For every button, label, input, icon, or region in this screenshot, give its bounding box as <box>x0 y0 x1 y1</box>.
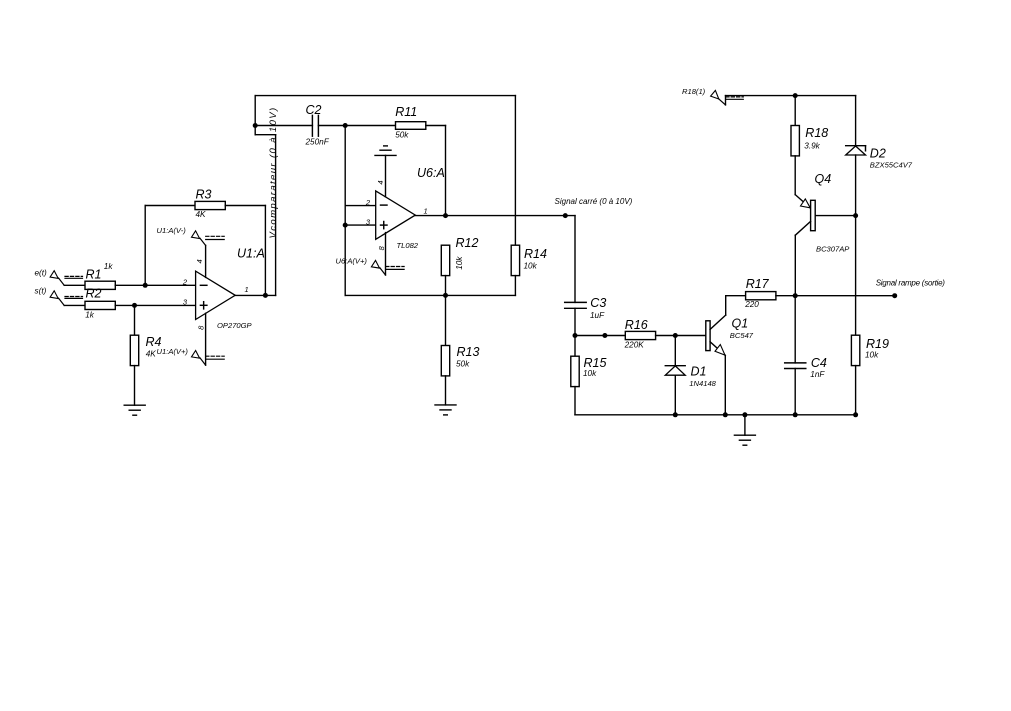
svg-text:220K: 220K <box>624 341 645 350</box>
svg-text:U1:A: U1:A <box>237 247 265 261</box>
svg-text:U6:A(V+): U6:A(V+) <box>336 256 368 265</box>
svg-text:10k: 10k <box>865 351 879 360</box>
svg-text:OP270GP: OP270GP <box>217 321 253 330</box>
svg-text:R3: R3 <box>196 187 212 201</box>
svg-text:10k: 10k <box>583 369 597 378</box>
svg-text:1: 1 <box>424 206 428 215</box>
svg-text:Signal carré (0 à 10V): Signal carré (0 à 10V) <box>555 197 633 206</box>
svg-text:4K: 4K <box>196 210 207 219</box>
svg-text:1k: 1k <box>85 311 95 320</box>
svg-text:s(t): s(t) <box>35 287 47 296</box>
svg-text:R15: R15 <box>584 356 607 370</box>
svg-text:R12: R12 <box>456 236 479 250</box>
svg-text:4: 4 <box>195 259 204 263</box>
svg-text:C3: C3 <box>590 296 606 310</box>
svg-text:Signal rampe (sortie): Signal rampe (sortie) <box>876 278 946 287</box>
svg-text:220: 220 <box>744 300 759 309</box>
svg-text:D1: D1 <box>691 365 707 379</box>
svg-text:R17: R17 <box>746 277 770 291</box>
svg-text:Q1: Q1 <box>732 317 749 331</box>
svg-text:4: 4 <box>376 180 385 184</box>
svg-text:R14: R14 <box>524 247 547 261</box>
svg-text:D2: D2 <box>870 147 886 161</box>
svg-text:8: 8 <box>197 325 206 330</box>
svg-text:BZX55C4V7: BZX55C4V7 <box>870 161 913 170</box>
svg-text:R2: R2 <box>86 287 102 301</box>
svg-text:10k: 10k <box>455 256 464 270</box>
svg-text:50k: 50k <box>395 130 409 139</box>
svg-text:1nF: 1nF <box>810 370 825 379</box>
svg-text:2: 2 <box>182 278 188 287</box>
svg-text:1k: 1k <box>104 262 114 271</box>
svg-text:C4: C4 <box>811 356 827 370</box>
svg-text:1: 1 <box>245 285 249 294</box>
svg-text:1N4148: 1N4148 <box>689 379 716 388</box>
svg-text:1uF: 1uF <box>590 311 605 320</box>
svg-text:C2: C2 <box>306 103 322 117</box>
svg-text:U1:A(V+): U1:A(V+) <box>157 347 189 356</box>
svg-text:R13: R13 <box>457 345 480 359</box>
svg-text:8: 8 <box>377 245 386 250</box>
svg-text:TL082: TL082 <box>397 241 419 250</box>
svg-text:R16: R16 <box>625 318 648 332</box>
svg-text:e(t): e(t) <box>35 268 48 277</box>
svg-text:Q4: Q4 <box>815 172 832 186</box>
svg-text:BC307AP: BC307AP <box>816 245 850 254</box>
svg-text:R19: R19 <box>866 337 889 351</box>
svg-text:250nF: 250nF <box>305 137 330 146</box>
svg-text:3.9k: 3.9k <box>804 142 820 151</box>
svg-text:R18: R18 <box>805 126 828 140</box>
svg-text:4K: 4K <box>146 349 157 358</box>
svg-text:10k: 10k <box>524 262 538 271</box>
svg-text:R11: R11 <box>395 105 417 119</box>
svg-text:U6:A: U6:A <box>417 166 445 180</box>
svg-text:Vcomparateur (0 à 10V): Vcomparateur (0 à 10V) <box>268 106 279 238</box>
svg-text:R18(1): R18(1) <box>682 87 706 96</box>
svg-text:2: 2 <box>365 198 371 207</box>
svg-text:BC547: BC547 <box>730 331 754 340</box>
svg-text:U1:A(V-): U1:A(V-) <box>157 226 187 235</box>
svg-text:R1: R1 <box>86 267 102 281</box>
svg-text:50k: 50k <box>456 359 470 368</box>
